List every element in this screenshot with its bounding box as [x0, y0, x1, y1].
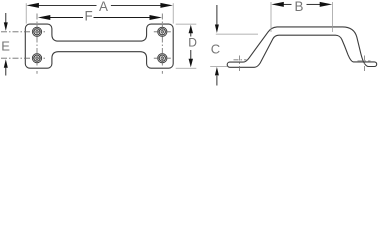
svg-text:F: F [85, 8, 93, 23]
svg-text:C: C [211, 42, 220, 57]
svg-text:A: A [99, 0, 108, 14]
svg-text:B: B [295, 0, 304, 14]
svg-text:E: E [1, 39, 10, 54]
svg-text:D: D [188, 35, 197, 49]
